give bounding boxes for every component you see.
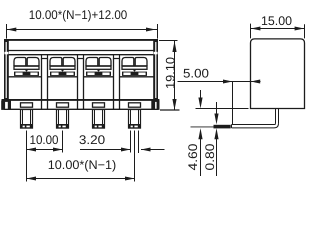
right end cap (151, 39, 159, 110)
span dimension 10.00*(N-1) (27, 131, 135, 182)
separator wall 1 (42, 55, 48, 110)
height dimension 19.10 (159, 41, 180, 111)
left end cap (1, 39, 11, 110)
terminal cell 3 (84, 58, 114, 108)
pin offset dimension 5.00 (178, 66, 261, 124)
pin 4 (128, 110, 141, 129)
svg-text:10.00*(N−1)+12.00: 10.00*(N−1)+12.00 (29, 8, 128, 22)
svg-text:10.00*(N−1): 10.00*(N−1) (48, 158, 117, 172)
separator wall 2 (78, 55, 84, 110)
side view bent pin (191, 109, 279, 129)
svg-text:3.20: 3.20 (79, 133, 105, 147)
separator wall 3 (114, 55, 120, 110)
overall width dimension 10.00*(N-1)+12.00 (7, 8, 158, 38)
pin 3 (92, 110, 105, 129)
front view outer body (2, 40, 160, 110)
terminal cell 2 (48, 58, 78, 108)
pin 1 (20, 110, 33, 129)
pin thickness dimension 0.80 (203, 102, 219, 176)
svg-text:4.60: 4.60 (186, 143, 200, 170)
pin length dimension 4.60 (186, 90, 203, 176)
svg-text:19.10: 19.10 (164, 57, 178, 89)
pin 2 (56, 110, 69, 129)
svg-text:10.00: 10.00 (30, 133, 59, 147)
body bottom reference line (196, 108, 249, 110)
side width dimension 15.00 (251, 14, 305, 38)
svg-text:15.00: 15.00 (261, 14, 292, 28)
pitch dimension 10.00 (27, 131, 63, 182)
side view body (251, 39, 305, 109)
pin width dimension 3.20 (79, 131, 165, 154)
svg-text:0.80: 0.80 (203, 143, 217, 170)
svg-text:5.00: 5.00 (183, 66, 209, 80)
terminal cell 4 (120, 58, 154, 108)
terminal cell 1 (clamp, strip, slot) (9, 58, 42, 108)
